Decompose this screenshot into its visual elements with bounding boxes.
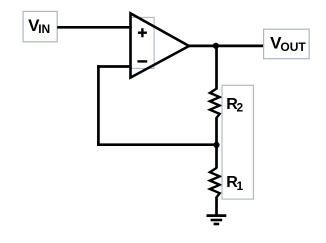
svg-text:1: 1	[237, 179, 244, 193]
svg-text:2: 2	[237, 101, 244, 115]
wire feedback corner to feedback node	[97, 143, 216, 146]
node VIN	[23, 11, 57, 41]
resistor R1 value label	[226, 174, 243, 193]
svg-text:OUT: OUT	[280, 40, 306, 54]
wire R1 to ground	[215, 197, 218, 216]
junction output node	[213, 43, 219, 49]
wire op-amp inverting input to feedback corner	[97, 65, 132, 68]
op-amp noninverting input plus label	[138, 28, 147, 37]
wire R2 to feedback node	[215, 117, 218, 146]
op-amp inverting input minus label	[137, 60, 147, 62]
op-amp U1	[131, 13, 190, 77]
node VOUT	[264, 29, 310, 59]
ground	[207, 216, 227, 224]
wire output node to R2	[215, 46, 218, 90]
resistor R1	[210, 168, 220, 197]
wire op-amp output to VOUT	[188, 45, 264, 48]
resistor R2	[210, 89, 220, 118]
wire VIN to op-amp noninverting input	[57, 26, 132, 29]
wire feedback vertical	[97, 65, 100, 146]
svg-text:IN: IN	[38, 22, 50, 36]
op-amp input annotation box	[131, 17, 154, 68]
resistor label annotation box	[222, 85, 253, 199]
wire feedback node to R1	[215, 145, 218, 169]
junction feedback node	[213, 142, 219, 148]
resistor R2 value label	[226, 96, 243, 115]
